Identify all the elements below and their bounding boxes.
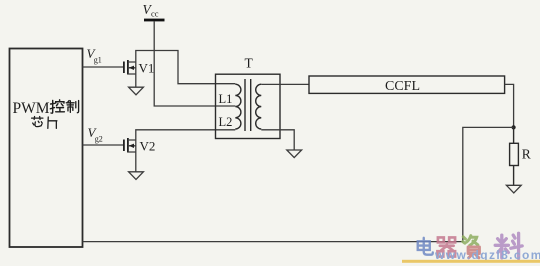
svg-text:CCFL: CCFL [385, 79, 420, 94]
svg-text:V2: V2 [140, 139, 156, 154]
inductor L1 label [219, 92, 233, 106]
watermark glyph 料 [495, 233, 522, 258]
watermark yellow underline [402, 260, 540, 263]
glyph 芯 [32, 117, 43, 127]
transformer primary winding L1+L2 coil [235, 84, 241, 129]
svg-text:L2: L2 [219, 115, 233, 129]
CCFL lamp box [309, 76, 505, 93]
watermark 电器资料 logo [402, 233, 540, 262]
node junction dot at R top [511, 125, 515, 129]
wire Vcc rail to transformer center tap [154, 21, 235, 106]
svg-text:g1: g1 [94, 56, 102, 65]
ground below V1 [129, 87, 144, 95]
node Vg2 label [88, 125, 103, 144]
CCFL label [385, 79, 420, 94]
watermark glyph 资 [463, 236, 480, 258]
glyph 制 [66, 101, 78, 113]
glyph 片 [48, 117, 57, 128]
transformer T label [245, 56, 254, 71]
resistor R label [522, 147, 531, 162]
ground below resistor R [506, 185, 521, 193]
transformer secondary winding coil [256, 84, 262, 129]
transistor V2 (N-MOSFET) [124, 138, 136, 153]
wire V2 drain to transformer L2 bottom [136, 130, 236, 140]
glyph 控 [50, 100, 64, 113]
svg-text:R: R [522, 147, 531, 162]
transistor V1 (N-MOSFET) [124, 60, 136, 75]
wire feedback from sense node to PWM chip [83, 127, 514, 241]
svg-text:cc: cc [151, 9, 159, 19]
wire Vg2 gate wire [83, 144, 124, 146]
resistor R [510, 127, 519, 185]
svg-text:L1: L1 [219, 92, 233, 106]
PWM controller chip U1 box [10, 49, 83, 248]
wire Vg1 gate wire [83, 66, 124, 68]
svg-text:T: T [245, 56, 254, 71]
watermark glyph 器 [437, 237, 455, 256]
inductor L2 label [219, 115, 233, 129]
svg-text:PWM: PWM [13, 100, 50, 117]
Vcc supply bar [144, 19, 165, 22]
wire V2 source to ground [135, 152, 137, 172]
ground below transformer secondary [287, 150, 302, 158]
transformer core [245, 79, 251, 131]
Vcc supply label [143, 2, 159, 19]
wire V1 drain to transformer L1 top [136, 51, 236, 84]
ground below V2 [129, 172, 144, 180]
transformer T box [216, 74, 281, 138]
wire V1 source to ground [135, 74, 137, 87]
watermark glyph 电 [418, 238, 433, 255]
node Vg1 label [87, 46, 102, 65]
transistor V1 label [139, 61, 155, 76]
wire CCFL right terminal down to sense node [505, 84, 514, 127]
wire secondary top to CCFL [261, 83, 309, 85]
transistor V2 label [140, 139, 156, 154]
wire secondary bottom to ground [261, 130, 294, 150]
PWM controller chip U1 label "PWM控制芯片" [13, 100, 79, 129]
svg-text:V1: V1 [139, 61, 155, 76]
svg-text:g2: g2 [95, 135, 103, 144]
